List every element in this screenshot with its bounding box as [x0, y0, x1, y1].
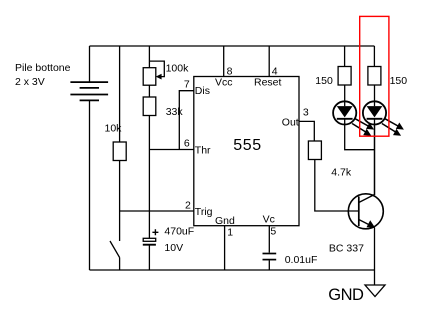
svg-text:3: 3: [303, 106, 309, 118]
svg-text:Thr: Thr: [195, 145, 211, 157]
wire LED2 cathode to collector: [374, 119, 376, 195]
svg-text:BC 337: BC 337: [329, 243, 364, 255]
svg-text:Gnd: Gnd: [215, 215, 235, 227]
resistor 4.7k: [308, 141, 321, 160]
wire LED1 cathode to collector line: [345, 119, 375, 150]
wire pot branch from rail: [148, 46, 150, 68]
svg-text:100k: 100k: [166, 63, 190, 75]
transistor Q1 BC337 circle: [348, 194, 383, 229]
svg-text:6: 6: [184, 138, 190, 150]
ground symbol GND: [365, 285, 385, 297]
resistor 10k: [113, 142, 126, 161]
wire pin 3 Out stub to 4.7k: [299, 121, 315, 141]
wire pot to 33k: [148, 85, 150, 97]
wire LED branch 2 from rail: [373, 46, 375, 67]
switch S1 blade: [110, 241, 120, 258]
wire switch bottom lead: [119, 258, 121, 271]
wire battery bottom lead: [89, 100, 91, 270]
wire 10k to trig and switch: [119, 161, 121, 242]
svg-text:470uF: 470uF: [164, 226, 194, 238]
wire pin 4 Reset stub: [268, 46, 270, 77]
svg-text:0.01uF: 0.01uF: [285, 254, 318, 266]
svg-text:5: 5: [270, 226, 276, 238]
transistor Q1 emitter lead: [359, 220, 375, 228]
svg-text:GND: GND: [328, 286, 364, 304]
wire 4.7k to transistor base: [315, 160, 359, 212]
wire Thr line to 555 pin 6: [149, 149, 193, 151]
svg-text:150: 150: [390, 75, 408, 87]
wire top rail: [90, 45, 375, 47]
LED D2 emission arrows: [382, 119, 399, 133]
svg-text:1: 1: [227, 227, 233, 239]
battery BT1 Pile bottone 2x3V: [70, 82, 108, 100]
transistor Q1 collector lead: [359, 124, 375, 203]
wire pin 5 Vc lead: [268, 226, 270, 253]
svg-text:555: 555: [233, 137, 262, 154]
wire 10k branch upper: [119, 46, 121, 142]
potentiometer 100k: [143, 68, 156, 86]
svg-text:150: 150: [315, 75, 333, 87]
svg-text:Out: Out: [282, 116, 299, 128]
svg-text:2 x 3V: 2 x 3V: [15, 76, 45, 88]
LED D1 triangle: [337, 106, 353, 117]
wire 150 to LED1: [344, 85, 346, 106]
svg-text:10k: 10k: [105, 123, 123, 135]
svg-text:7: 7: [184, 79, 190, 91]
svg-text:4.7k: 4.7k: [331, 167, 352, 179]
wire Trig line to 555 pin 2: [120, 210, 194, 212]
LED D1 emission arrows: [352, 119, 369, 133]
wire battery top lead: [89, 46, 91, 82]
resistor 33k: [143, 97, 156, 116]
wire pin 8 Vcc stub: [223, 46, 225, 77]
svg-text:8: 8: [227, 65, 233, 77]
resistor 150 (left): [338, 67, 351, 86]
capacitor 470uF plus sign: [152, 229, 158, 235]
wire 0.01uF bottom lead: [268, 260, 270, 270]
capacitor 470uF C1 polarized: [143, 238, 156, 241]
wire Dis to 555 pin 7: [179, 91, 193, 150]
wire bottom rail: [90, 269, 375, 271]
svg-text:Dis: Dis: [195, 85, 210, 97]
resistor 150 (right): [368, 67, 381, 86]
svg-text:Reset: Reset: [254, 76, 282, 88]
LED D1 cathode bar: [337, 118, 353, 120]
wire pin 1 Gnd lead: [224, 226, 226, 271]
svg-text:33k: 33k: [166, 106, 184, 118]
red highlight box: [360, 16, 389, 136]
wire emitter to ground: [374, 228, 376, 286]
svg-text:10V: 10V: [164, 242, 183, 254]
svg-text:2: 2: [185, 200, 191, 212]
LED D2 circle: [363, 101, 386, 124]
transistor Q1 emitter arrowhead: [367, 220, 376, 228]
LED D2 cathode bar: [367, 118, 383, 120]
wire 470uF bottom lead: [148, 246, 150, 271]
svg-text:Vc: Vc: [263, 213, 275, 225]
LED D1 circle: [333, 101, 356, 124]
LED D2 triangle: [367, 106, 383, 117]
IC U1 555 timer body: [194, 77, 299, 226]
potentiometer 100k wiper: [149, 61, 164, 77]
svg-text:Trig: Trig: [195, 206, 213, 218]
svg-text:Pile bottone: Pile bottone: [15, 62, 71, 74]
wire LED branch 1 from rail: [344, 46, 346, 67]
wire 33k down to capacitor (through Thr and Trig junctions): [148, 116, 150, 239]
wire 150 to LED2: [374, 85, 376, 106]
capacitor 0.01uF C2: [263, 254, 277, 260]
svg-text:Vcc: Vcc: [215, 77, 233, 89]
transistor Q1 base bar: [358, 197, 360, 227]
